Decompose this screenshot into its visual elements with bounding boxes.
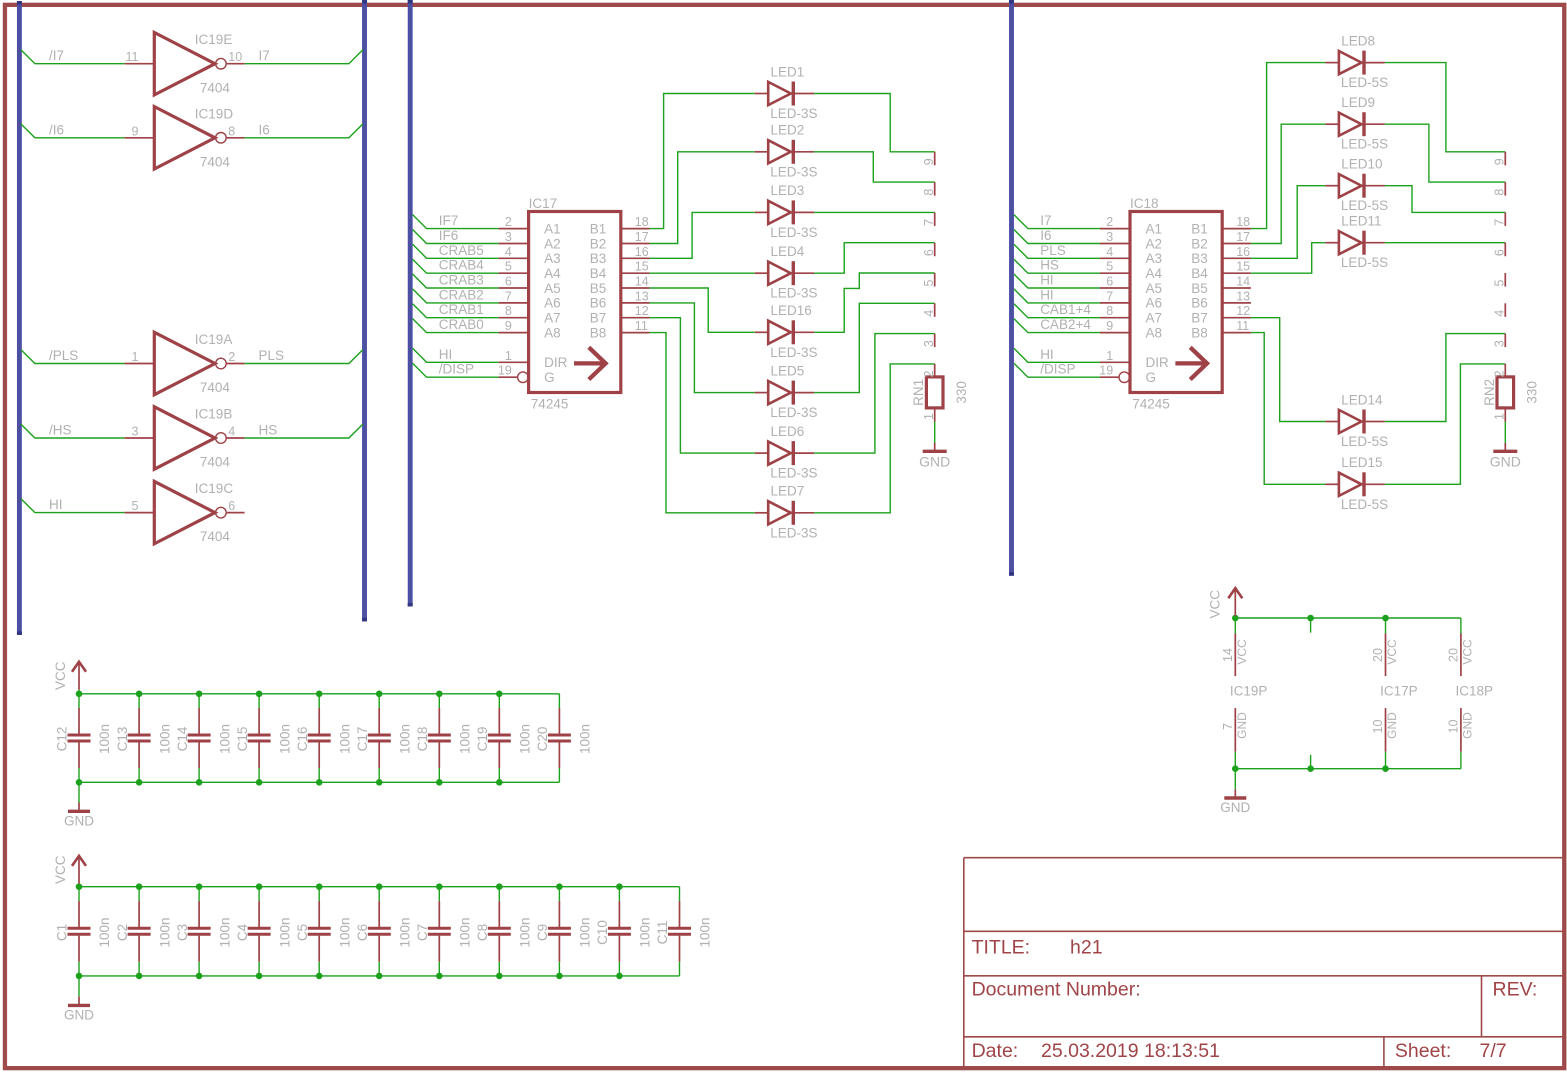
- power pins IC18P: [1460, 618, 1462, 769]
- svg-text:7404: 7404: [200, 455, 231, 470]
- svg-text:CAB2+4: CAB2+4: [1040, 317, 1091, 332]
- svg-text:GND: GND: [64, 1008, 94, 1023]
- svg-text:20: 20: [1447, 648, 1461, 662]
- svg-text:7/7: 7/7: [1480, 1040, 1507, 1062]
- svg-text:B3: B3: [590, 251, 607, 266]
- junction: [196, 973, 203, 980]
- wire IC18 B1-LED8: [1251, 63, 1326, 229]
- svg-text:GND: GND: [64, 814, 94, 829]
- wire /DISP (bus to IC17 pin 19): [413, 363, 499, 377]
- svg-text:LED-5S: LED-5S: [1341, 137, 1388, 152]
- svg-text:LED4: LED4: [771, 244, 805, 259]
- junction: [136, 779, 143, 786]
- wire /DISP (bus to IC18 pin 19): [1014, 363, 1100, 377]
- junction: [376, 883, 383, 890]
- inverter IC19C (7404): [125, 481, 245, 543]
- svg-text:8: 8: [228, 124, 235, 138]
- junction: [76, 779, 83, 786]
- junction: [556, 973, 563, 980]
- junction: [376, 691, 383, 698]
- wire CRAB1 (bus to IC17 pin 8): [413, 304, 499, 318]
- svg-text:4: 4: [1106, 245, 1113, 259]
- svg-text:1: 1: [1493, 413, 1507, 420]
- svg-text:10: 10: [1447, 720, 1461, 734]
- svg-text:100n: 100n: [217, 724, 232, 754]
- svg-text:HI: HI: [439, 347, 453, 362]
- svg-text:100n: 100n: [337, 724, 352, 754]
- LED LED7: [755, 501, 814, 525]
- svg-text:5: 5: [132, 499, 139, 513]
- svg-text:100n: 100n: [578, 724, 593, 754]
- svg-text:14: 14: [1236, 275, 1250, 289]
- capacitor C14 (100n): [188, 694, 211, 783]
- svg-text:IC19C: IC19C: [195, 481, 234, 496]
- bus B3: [408, 0, 413, 607]
- wire GND rail (power pins): [1235, 768, 1461, 770]
- wire LED4-RN1.6: [814, 243, 935, 274]
- svg-text:B8: B8: [1191, 325, 1208, 340]
- svg-text:7: 7: [505, 289, 512, 303]
- svg-text:LED6: LED6: [771, 424, 805, 439]
- svg-text:B5: B5: [1191, 281, 1208, 296]
- svg-text:B5: B5: [590, 281, 607, 296]
- svg-text:9: 9: [1493, 158, 1507, 165]
- svg-text:LED10: LED10: [1341, 157, 1382, 172]
- svg-text:A8: A8: [544, 325, 561, 340]
- svg-text:I6: I6: [1040, 228, 1051, 243]
- svg-text:B3: B3: [1191, 251, 1208, 266]
- wire IC18 B7-LED14: [1251, 318, 1326, 422]
- wire LED3-RN1.7: [814, 211, 935, 213]
- svg-text:C6: C6: [355, 924, 370, 941]
- wire LED6-RN1.3: [814, 334, 935, 454]
- svg-text:100n: 100n: [337, 917, 352, 947]
- svg-text:100n: 100n: [458, 724, 473, 754]
- inverter IC19B (7404): [125, 407, 245, 469]
- junction: [316, 973, 323, 980]
- svg-text:7404: 7404: [200, 80, 231, 95]
- bus B4: [1009, 0, 1014, 576]
- junction: [136, 883, 143, 890]
- wire HI (bus B1 to IC19C input): [21, 499, 125, 513]
- svg-text:C4: C4: [235, 923, 250, 941]
- svg-text:B6: B6: [1191, 296, 1208, 311]
- svg-text:6: 6: [1106, 275, 1113, 289]
- wire /PLS (bus B1 to IC19A input): [21, 350, 125, 364]
- svg-text:17: 17: [635, 230, 649, 244]
- svg-text:8: 8: [505, 304, 512, 318]
- svg-text:IF6: IF6: [439, 228, 459, 243]
- junction: [256, 779, 263, 786]
- svg-text:10: 10: [228, 50, 242, 64]
- power symbol VCC: [72, 856, 86, 887]
- svg-text:G: G: [544, 370, 555, 385]
- wire IC17 B5-LED16: [650, 288, 755, 332]
- wire IC17 B1-LED1: [650, 94, 755, 229]
- wire CAB1+4 (bus to IC18 pin 8): [1014, 304, 1100, 318]
- wire I7 (bus to IC18 pin 2): [1014, 215, 1100, 229]
- svg-text:HI: HI: [1040, 287, 1054, 302]
- svg-text:A7: A7: [1146, 311, 1163, 326]
- svg-text:A4: A4: [544, 266, 561, 281]
- svg-text:CRAB3: CRAB3: [439, 273, 484, 288]
- ground symbol GND: [1224, 789, 1246, 798]
- svg-text:5: 5: [922, 279, 936, 286]
- LED LED6: [755, 441, 814, 465]
- svg-text:14: 14: [1221, 648, 1235, 662]
- svg-text:HS: HS: [259, 423, 278, 438]
- capacitor C5 (100n): [308, 887, 331, 976]
- svg-text:IF7: IF7: [439, 213, 459, 228]
- svg-text:A6: A6: [544, 296, 561, 311]
- capacitor C9 (100n): [548, 887, 571, 976]
- svg-text:2: 2: [922, 370, 936, 377]
- svg-text:LED-3S: LED-3S: [770, 525, 817, 540]
- wire LED5-RN1.4: [814, 303, 935, 392]
- LED LED11: [1325, 231, 1384, 255]
- svg-text:100n: 100n: [398, 917, 413, 947]
- svg-text:C14: C14: [175, 726, 190, 751]
- svg-text:C16: C16: [295, 727, 310, 752]
- svg-text:A4: A4: [1146, 266, 1163, 281]
- resistor network RN1 (330): [926, 152, 943, 422]
- svg-text:14: 14: [635, 275, 649, 289]
- wire PLS (IC19A output to bus B2): [245, 350, 363, 364]
- capacitor C11 (100n): [668, 887, 691, 976]
- svg-text:A7: A7: [544, 311, 561, 326]
- capacitor C18 (100n): [428, 694, 451, 783]
- svg-text:6: 6: [1493, 249, 1507, 256]
- svg-text:100n: 100n: [217, 917, 232, 947]
- ground symbol GND (RN2): [1504, 443, 1506, 451]
- svg-text:15: 15: [635, 260, 649, 274]
- svg-text:12: 12: [635, 304, 649, 318]
- wire IF7 (bus to IC17 pin 2): [413, 215, 499, 229]
- wire /I7 (bus B1 to IC19E input): [21, 50, 125, 64]
- wire LED7-RN1.2: [814, 364, 935, 513]
- svg-text:C19: C19: [475, 727, 490, 752]
- wire LED1-RN1.9: [814, 94, 935, 152]
- junction: [76, 691, 83, 698]
- svg-text:8: 8: [1106, 304, 1113, 318]
- svg-text:I7: I7: [1040, 213, 1051, 228]
- wire to GND: [78, 782, 80, 802]
- junction: [496, 883, 503, 890]
- junction: [76, 883, 83, 890]
- junction: [436, 883, 443, 890]
- svg-text:LED9: LED9: [1341, 95, 1375, 110]
- svg-text:Sheet:: Sheet:: [1395, 1040, 1451, 1062]
- svg-text:IC19B: IC19B: [195, 407, 233, 422]
- junction: [496, 973, 503, 980]
- junction: [436, 691, 443, 698]
- LED LED16: [755, 320, 814, 344]
- svg-text:LED-3S: LED-3S: [770, 466, 817, 481]
- svg-text:5: 5: [505, 260, 512, 274]
- junction: [496, 691, 503, 698]
- junction: [196, 779, 203, 786]
- svg-text:74245: 74245: [531, 397, 569, 412]
- svg-text:IC19A: IC19A: [195, 332, 233, 347]
- svg-text:11: 11: [126, 50, 139, 64]
- svg-text:4: 4: [922, 310, 936, 317]
- wire VCC rail (power pins): [1235, 617, 1461, 619]
- svg-text:DIR: DIR: [544, 355, 568, 370]
- svg-text:C13: C13: [115, 727, 130, 752]
- svg-text:LED15: LED15: [1341, 455, 1382, 470]
- svg-text:/PLS: /PLS: [49, 348, 78, 363]
- svg-text:25.03.2019 18:13:51: 25.03.2019 18:13:51: [1041, 1040, 1220, 1062]
- inverter IC19A (7404): [125, 332, 245, 394]
- svg-text:VCC: VCC: [1235, 639, 1249, 665]
- svg-text:2: 2: [228, 350, 235, 364]
- ground symbol GND (RN1): [934, 443, 936, 451]
- capacitor C17 (100n): [368, 694, 391, 783]
- wire IC17 B7-LED6: [650, 318, 755, 453]
- capacitor C2 (100n): [128, 887, 151, 976]
- wire /I6 (bus B1 to IC19D input): [21, 124, 125, 138]
- svg-text:B2: B2: [590, 236, 607, 251]
- svg-text:A1: A1: [1146, 221, 1163, 236]
- svg-text:B4: B4: [1191, 266, 1208, 281]
- wire I7 (IC19E output to bus B2): [245, 50, 363, 64]
- svg-text:CRAB1: CRAB1: [439, 302, 484, 317]
- power symbol VCC: [1228, 588, 1242, 618]
- bus B2: [362, 0, 367, 621]
- svg-text:B8: B8: [590, 325, 607, 340]
- svg-text:TITLE:: TITLE:: [972, 936, 1031, 958]
- svg-text:/I6: /I6: [49, 122, 64, 137]
- junction: [196, 883, 203, 890]
- IC IC18 (74245): [1100, 212, 1251, 393]
- svg-text:7: 7: [922, 219, 936, 226]
- svg-text:1: 1: [1106, 349, 1113, 363]
- svg-text:C11: C11: [655, 921, 670, 945]
- wire HS (bus to IC18 pin 5): [1014, 259, 1100, 273]
- svg-text:1: 1: [132, 350, 139, 364]
- svg-text:C5: C5: [295, 924, 310, 941]
- svg-text:LED-3S: LED-3S: [770, 345, 817, 360]
- svg-text:IC18P: IC18P: [1456, 683, 1494, 698]
- wire I6 (bus to IC18 pin 3): [1014, 230, 1100, 244]
- svg-text:LED8: LED8: [1341, 33, 1375, 48]
- svg-text:C3: C3: [175, 924, 190, 941]
- svg-text:IC19E: IC19E: [195, 32, 233, 47]
- LED LED15: [1325, 472, 1384, 496]
- junction: [496, 779, 503, 786]
- capacitor C10 (100n): [608, 887, 631, 976]
- svg-text:RN1: RN1: [911, 379, 926, 406]
- wire HS (IC19B output to bus B2): [245, 424, 363, 438]
- wire LED15-RN2.2: [1385, 364, 1506, 484]
- svg-text:100n: 100n: [638, 917, 653, 947]
- svg-text:13: 13: [635, 289, 649, 303]
- svg-text:A3: A3: [544, 251, 561, 266]
- svg-text:/HS: /HS: [49, 423, 72, 438]
- junction: [616, 883, 623, 890]
- svg-text:5: 5: [1106, 260, 1113, 274]
- svg-text:LED2: LED2: [771, 123, 805, 138]
- junction: [316, 883, 323, 890]
- svg-text:4: 4: [228, 425, 235, 439]
- svg-text:LED-5S: LED-5S: [1341, 255, 1388, 270]
- wire I6 (IC19D output to bus B2): [245, 124, 363, 138]
- wire CAB2+4 (bus to IC18 pin 9): [1014, 319, 1100, 333]
- svg-text:3: 3: [922, 340, 936, 347]
- capacitor C16 (100n): [308, 694, 331, 783]
- junction: [376, 973, 383, 980]
- wire IC18 B2-LED9: [1251, 124, 1326, 243]
- junction: [136, 691, 143, 698]
- svg-text:16: 16: [1236, 245, 1250, 259]
- wire IC18 B3-LED10: [1251, 186, 1326, 259]
- svg-text:100n: 100n: [97, 724, 112, 754]
- junction: [1307, 615, 1314, 622]
- svg-text:7: 7: [1221, 723, 1235, 730]
- svg-text:B2: B2: [1191, 236, 1208, 251]
- svg-text:A2: A2: [544, 236, 561, 251]
- title block: [964, 858, 1565, 1069]
- wire RN2 pin1 to GND: [1504, 422, 1506, 444]
- svg-text:100n: 100n: [458, 917, 473, 947]
- power symbol VCC: [72, 662, 86, 694]
- svg-text:100n: 100n: [518, 917, 533, 947]
- svg-text:GND: GND: [919, 454, 950, 470]
- wire /HS (bus B1 to IC19B input): [21, 424, 125, 438]
- svg-text:G: G: [1146, 370, 1157, 385]
- svg-text:15: 15: [1236, 260, 1250, 274]
- wire LED9-RN2.8: [1385, 124, 1506, 182]
- wire HI (bus to IC18 pin 1): [1014, 348, 1100, 362]
- wire CRAB3 (bus to IC17 pin 6): [413, 274, 499, 288]
- svg-text:GND: GND: [1490, 454, 1521, 470]
- wire IF6 (bus to IC17 pin 3): [413, 230, 499, 244]
- junction: [1382, 765, 1389, 772]
- svg-text:LED11: LED11: [1341, 214, 1381, 229]
- junction: [1232, 765, 1239, 772]
- LED LED14: [1325, 410, 1384, 434]
- svg-text:19: 19: [498, 364, 512, 378]
- svg-text:/DISP: /DISP: [1040, 362, 1075, 377]
- svg-text:2: 2: [1106, 215, 1113, 229]
- svg-text:17: 17: [1236, 230, 1250, 244]
- capacitor C6 (100n): [368, 887, 391, 976]
- power pins IC19P: [1234, 618, 1236, 769]
- svg-text:8: 8: [922, 189, 936, 196]
- LED LED1: [755, 82, 814, 106]
- svg-text:LED-3S: LED-3S: [770, 106, 817, 121]
- wire GND rail (C1-C11): [79, 975, 680, 977]
- svg-text:LED-5S: LED-5S: [1341, 497, 1388, 512]
- svg-text:19: 19: [1099, 364, 1113, 378]
- svg-text:I6: I6: [259, 122, 270, 137]
- wire IC17 B8-LED7: [650, 333, 755, 513]
- LED LED9: [1325, 112, 1384, 136]
- svg-text:10: 10: [1371, 720, 1385, 734]
- svg-text:8: 8: [1493, 189, 1507, 196]
- junction: [256, 973, 263, 980]
- wire VCC rail (C12-C20): [79, 693, 559, 695]
- capacitor C8 (100n): [488, 887, 511, 976]
- junction: [376, 779, 383, 786]
- svg-text:LED-3S: LED-3S: [770, 164, 817, 179]
- svg-text:I7: I7: [259, 48, 270, 63]
- svg-text:C1: C1: [55, 924, 70, 941]
- svg-text:B6: B6: [590, 296, 607, 311]
- resistor network RN2 (330): [1497, 152, 1514, 422]
- junction: [256, 883, 263, 890]
- capacitor C19 (100n): [488, 694, 511, 783]
- LED LED2: [755, 140, 814, 164]
- svg-text:100n: 100n: [277, 724, 292, 754]
- svg-text:100n: 100n: [277, 917, 292, 947]
- svg-text:330: 330: [1525, 381, 1540, 404]
- svg-text:2: 2: [1493, 370, 1507, 377]
- wire IC17 B4-LED4: [650, 272, 755, 274]
- svg-text:A1: A1: [544, 221, 561, 236]
- wire LED2-RN1.8: [814, 152, 935, 182]
- svg-text:3: 3: [1106, 230, 1113, 244]
- svg-text:HS: HS: [1040, 258, 1059, 273]
- svg-text:LED7: LED7: [771, 484, 805, 499]
- svg-text:HI: HI: [1040, 347, 1054, 362]
- wire HI (bus to IC17 pin 1): [413, 348, 499, 362]
- svg-text:GND: GND: [1385, 712, 1399, 739]
- inverter IC19E (7404): [125, 33, 245, 95]
- svg-text:7404: 7404: [200, 529, 231, 544]
- svg-text:4: 4: [505, 245, 512, 259]
- wire IC18 B8-LED15: [1251, 333, 1326, 485]
- wire CRAB5 (bus to IC17 pin 4): [413, 244, 499, 258]
- svg-text:20: 20: [1371, 648, 1385, 662]
- junction: [136, 973, 143, 980]
- capacitor C7 (100n): [428, 887, 451, 976]
- svg-text:IC19D: IC19D: [195, 106, 234, 121]
- svg-text:C15: C15: [235, 727, 250, 752]
- svg-text:LED-5S: LED-5S: [1341, 198, 1388, 213]
- svg-text:9: 9: [505, 319, 512, 333]
- junction: [556, 883, 563, 890]
- svg-text:13: 13: [1236, 289, 1250, 303]
- svg-text:C2: C2: [115, 924, 130, 941]
- svg-text:Date:: Date:: [972, 1040, 1019, 1062]
- svg-text:100n: 100n: [97, 917, 112, 947]
- svg-text:C7: C7: [415, 924, 430, 941]
- wire LED8-RN2.9: [1385, 63, 1506, 152]
- svg-text:HI: HI: [1040, 273, 1054, 288]
- svg-text:7404: 7404: [200, 154, 231, 169]
- junction: [1382, 615, 1389, 622]
- svg-text:C9: C9: [535, 924, 550, 941]
- wire VCC rail (C1-C11): [79, 886, 680, 888]
- wire stub (VCC rail): [1310, 618, 1312, 633]
- bus B1: [17, 1, 22, 635]
- junction: [1232, 615, 1239, 622]
- svg-text:LED16: LED16: [771, 303, 812, 318]
- svg-text:B1: B1: [1191, 221, 1208, 236]
- junction: [316, 691, 323, 698]
- svg-text:6: 6: [228, 499, 235, 513]
- svg-text:18: 18: [635, 215, 649, 229]
- svg-text:1: 1: [505, 349, 512, 363]
- svg-text:16: 16: [635, 245, 649, 259]
- wire IC17 B2-LED2: [650, 152, 755, 244]
- svg-text:PLS: PLS: [259, 348, 285, 363]
- svg-text:VCC: VCC: [53, 661, 68, 690]
- svg-text:100n: 100n: [157, 917, 172, 947]
- wire CRAB0 (bus to IC17 pin 9): [413, 319, 499, 333]
- svg-text:GND: GND: [1235, 712, 1249, 739]
